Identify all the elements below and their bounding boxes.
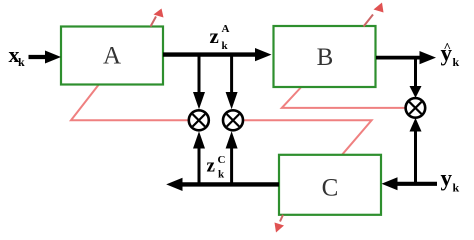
node y_k input arrow into C [382, 177, 438, 190]
label z_k^A [210, 23, 230, 52]
svg-text:z: z [207, 156, 216, 177]
wire: red adapt path from B bottom to multiplier M3 [282, 88, 406, 108]
wire: branch down to multiplier M1 [193, 55, 205, 109]
multiplier M1 [189, 110, 209, 130]
node xk input arrow [29, 51, 62, 64]
label z_k^C [207, 154, 226, 181]
wire: branch up from y_k line to multiplier M3 [410, 118, 422, 184]
label yhat_k [441, 40, 460, 70]
svg-text:B: B [317, 44, 334, 71]
svg-text:A: A [222, 23, 230, 35]
svg-text:^: ^ [444, 40, 452, 55]
wire: red adapt path from multiplier M2 to C top [243, 120, 371, 155]
svg-text:A: A [103, 43, 121, 70]
wire: branch down to multiplier M2 [226, 55, 238, 109]
wire C output to the left [166, 178, 279, 191]
red adapt arrow on B [364, 3, 384, 27]
block A [61, 27, 163, 85]
svg-text:C: C [322, 175, 339, 202]
wire: red adapt path from A bottom to multiplier M1 [71, 85, 188, 120]
svg-text:y: y [441, 166, 453, 191]
svg-text:k: k [453, 55, 460, 69]
multiplier M3 [406, 98, 426, 118]
svg-text:k: k [218, 169, 225, 181]
svg-text:k: k [222, 40, 229, 52]
wire: branch down from B output to multiplier M3 [410, 58, 422, 98]
label x_k [9, 42, 26, 69]
wire: branch up from C line to multiplier M1 [193, 131, 205, 183]
wire B output to yhat [376, 51, 436, 64]
red adapt arrow on C [275, 215, 285, 233]
wire: branch up from C line to multiplier M2 [226, 131, 238, 183]
label y_k [441, 166, 460, 195]
svg-text:C: C [218, 154, 226, 166]
svg-text:k: k [18, 55, 25, 69]
red adapt arrow on A [151, 9, 164, 27]
block C [279, 155, 381, 215]
svg-text:k: k [453, 181, 460, 195]
multiplier M2 [223, 110, 243, 130]
wire A to B [163, 48, 272, 61]
svg-text:z: z [210, 24, 219, 48]
block B [274, 26, 376, 87]
